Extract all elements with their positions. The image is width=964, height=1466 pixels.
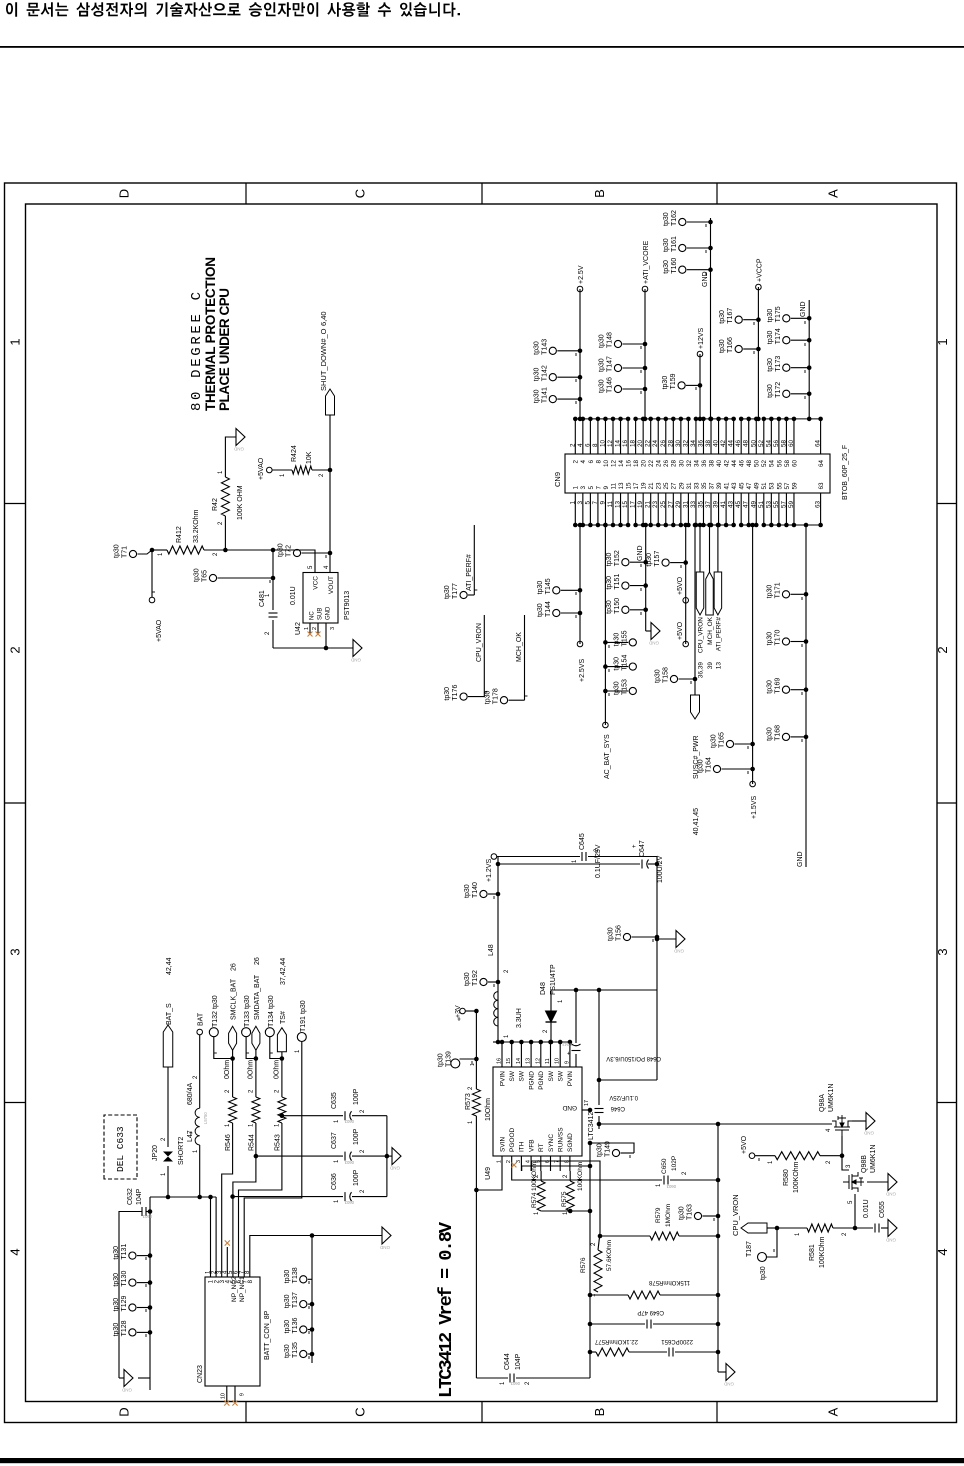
testpoint T150: [622, 606, 629, 613]
testpoint T65: [209, 574, 216, 581]
net +ATI_VCORE rail: [644, 289, 646, 419]
testpoint T142: [549, 374, 556, 381]
svg-text:D: D: [117, 189, 132, 198]
ground: [676, 931, 685, 948]
svg-text:A: A: [826, 1407, 841, 1416]
svg-text:T155: T155: [621, 630, 628, 646]
svg-text:43: 43: [728, 501, 735, 509]
svg-text:SVIN: SVIN: [499, 1137, 506, 1152]
drain rail: [599, 1123, 832, 1125]
svg-text:THERMAL PROTECTION: THERMAL PROTECTION: [203, 257, 218, 411]
svg-text:0.1UF/25V: 0.1UF/25V: [609, 1094, 638, 1100]
svg-text:D48: D48: [540, 982, 547, 995]
svg-text:GND: GND: [723, 1382, 734, 1387]
testpoint T143: [549, 347, 556, 354]
svg-text:tp30: tp30: [444, 585, 451, 599]
svg-text:CPU_VRON: CPU_VRON: [731, 1194, 740, 1236]
capacitor C481: [272, 550, 274, 610]
svg-text:T176: T176: [452, 685, 459, 701]
svg-text:SHUT_DOWN#_O: SHUT_DOWN#_O: [319, 328, 328, 391]
testpoint T173: [783, 364, 790, 371]
svg-text:6: 6: [584, 443, 591, 447]
svg-text:C648 PO/150U/6.3V: C648 PO/150U/6.3V: [606, 1055, 661, 1061]
svg-text:29: 29: [675, 501, 682, 509]
svg-text:0603: 0603: [344, 1160, 354, 1165]
svg-text:50: 50: [750, 439, 757, 447]
svg-text:9: 9: [240, 1393, 246, 1396]
testpoint T136: [300, 1326, 307, 1333]
svg-text:58: 58: [784, 460, 791, 468]
svg-text:31: 31: [686, 482, 693, 490]
diamond SMCLK_BAT: [229, 1026, 237, 1050]
svg-text:tp30: tp30: [533, 389, 540, 403]
svg-text:26: 26: [660, 439, 667, 447]
svg-text:100P: 100P: [353, 1128, 360, 1145]
svg-text:33: 33: [693, 482, 700, 490]
svg-text:PVIN: PVIN: [499, 1071, 506, 1086]
svg-text:B: B: [592, 189, 607, 198]
svg-text:+5VAO: +5VAO: [156, 619, 163, 642]
svg-text:tp30: tp30: [719, 339, 726, 353]
net +2.5V rail: [579, 289, 581, 419]
svg-text:0Ohm: 0Ohm: [273, 1060, 280, 1079]
svg-text:1: 1: [768, 1160, 774, 1164]
testpoint T162: [679, 218, 686, 225]
svg-text:R424: R424: [291, 445, 298, 462]
svg-text:14: 14: [615, 439, 622, 447]
svg-text:CN9: CN9: [553, 472, 562, 487]
svg-text:39: 39: [707, 662, 714, 670]
testpoint T152: [622, 559, 629, 566]
svg-text:SW: SW: [509, 1070, 516, 1081]
svg-text:R543: R543: [274, 1134, 281, 1151]
svg-text:+5VO: +5VO: [741, 1135, 748, 1154]
svg-text:24: 24: [656, 460, 663, 468]
svg-text:PGND: PGND: [528, 1071, 535, 1090]
svg-text:10: 10: [555, 1058, 561, 1064]
svg-text:L5750: L5750: [203, 1112, 208, 1124]
svg-text:VFB: VFB: [528, 1139, 535, 1152]
IC U42 PST9013: [303, 573, 338, 624]
svg-text:3: 3: [8, 948, 23, 955]
svg-text:16: 16: [497, 1058, 503, 1064]
wire R42 to gnd: [225, 437, 236, 477]
svg-text:10Ohm: 10Ohm: [485, 1098, 492, 1121]
svg-text:T187: T187: [746, 1241, 753, 1257]
svg-text:39: 39: [716, 482, 723, 490]
testpoint T171: [782, 591, 789, 598]
svg-text:2: 2: [8, 646, 23, 653]
svg-text:1: 1: [161, 1172, 167, 1176]
+1.2VS output rail: [497, 857, 499, 1043]
testpoint T132: [209, 1028, 218, 1037]
svg-text:10: 10: [599, 439, 606, 447]
svg-text:T135: T135: [292, 1342, 299, 1358]
svg-text:tp30: tp30: [613, 681, 620, 695]
svg-text:T128: T128: [121, 1320, 128, 1336]
transistor Q98A UM6K1N: [832, 1115, 852, 1136]
svg-text:0603: 0603: [666, 1184, 676, 1189]
svg-text:T150: T150: [614, 598, 621, 614]
svg-text:T151: T151: [614, 574, 621, 590]
svg-text:T152: T152: [614, 550, 621, 566]
svg-text:T175: T175: [775, 306, 782, 322]
svg-text:T65: T65: [202, 570, 209, 582]
svg-text:1: 1: [572, 859, 578, 863]
svg-text:PVIN: PVIN: [567, 1071, 574, 1086]
svg-text:T159: T159: [670, 373, 677, 389]
svg-text:9: 9: [564, 1061, 570, 1064]
svg-text:25: 25: [663, 482, 670, 490]
svg-text:tp30: tp30: [606, 576, 613, 590]
svg-text:100KOhm: 100KOhm: [819, 1236, 826, 1268]
testpoint T135: [300, 1350, 307, 1357]
svg-text:43: 43: [731, 482, 738, 490]
svg-text:NP_NC2: NP_NC2: [231, 1276, 238, 1302]
testpoint T169: [782, 686, 789, 693]
svg-text:T153: T153: [621, 679, 628, 695]
svg-text:2200PC651: 2200PC651: [661, 1338, 693, 1344]
testpoint T172: [783, 390, 790, 397]
svg-text:7: 7: [595, 486, 602, 490]
svg-text:U42: U42: [295, 622, 302, 635]
svg-text:1MOhm: 1MOhm: [665, 1204, 672, 1227]
gate wire Q98A: [841, 1136, 843, 1156]
svg-text:PST9013: PST9013: [344, 591, 351, 620]
svg-text:33: 33: [690, 501, 697, 509]
net +1.5VS rail: [752, 525, 754, 784]
svg-text:13: 13: [618, 482, 625, 490]
svg-text:15: 15: [506, 1058, 512, 1064]
svg-text:15: 15: [622, 501, 629, 509]
svg-text:2: 2: [360, 1109, 366, 1113]
svg-text:tp30: tp30: [608, 927, 615, 941]
svg-text:tp30: tp30: [464, 884, 471, 898]
testpoint T145: [553, 587, 560, 594]
svg-text:tp30: tp30: [599, 358, 606, 372]
svg-text:27: 27: [671, 482, 678, 490]
svg-text:32: 32: [682, 439, 689, 447]
svg-text:T156: T156: [616, 925, 623, 941]
capacitor C646: [598, 990, 600, 1105]
svg-text:SW: SW: [548, 1070, 555, 1081]
svg-text:GND: GND: [885, 1238, 896, 1243]
testpoint T137: [300, 1301, 307, 1308]
svg-text:35: 35: [697, 501, 704, 509]
svg-text:57: 57: [780, 501, 787, 509]
ground (Q98A): [852, 1120, 866, 1122]
gnd rail (buck): [656, 857, 658, 1081]
svg-text:tp30: tp30: [760, 1266, 767, 1280]
ground: [392, 1148, 401, 1165]
comp rung R578: [590, 1294, 628, 1296]
VFB wire: [531, 1161, 600, 1233]
testpoint T146: [614, 385, 621, 392]
svg-text:1: 1: [218, 470, 224, 474]
testpoint T144: [553, 609, 560, 616]
svg-text:D: D: [117, 1407, 132, 1416]
svg-text:C632: C632: [127, 1188, 134, 1205]
svg-text:T343: T343: [562, 1042, 572, 1047]
svg-text:C: C: [353, 189, 368, 198]
svg-text:41: 41: [720, 501, 727, 509]
svg-text:C646: C646: [610, 1105, 625, 1111]
svg-text:20: 20: [637, 439, 644, 447]
svg-text:1: 1: [656, 1183, 662, 1187]
testpoint T174: [783, 337, 790, 344]
svg-text:2: 2: [504, 969, 510, 973]
tp GND rail: [311, 1236, 313, 1364]
svg-text:16: 16: [625, 460, 632, 468]
resistor R575: [569, 1171, 571, 1181]
comp rung R577 C651: [590, 1351, 596, 1353]
svg-text:tp30: tp30: [212, 995, 219, 1009]
diode D48 FS1U4TP: [550, 1022, 552, 1042]
testpoint T131: [129, 1252, 136, 1259]
CN23 pin3 wire: [222, 1123, 233, 1277]
resistor R574: [540, 1171, 542, 1181]
svg-text:SUB: SUB: [318, 608, 324, 620]
svg-text:T142: T142: [541, 365, 548, 381]
svg-text:2: 2: [569, 443, 576, 447]
svg-text:+2.5V: +2.5V: [578, 265, 585, 284]
svg-text:+5VO: +5VO: [677, 621, 684, 640]
ground: [124, 1370, 133, 1387]
svg-text:T158: T158: [663, 667, 670, 683]
svg-text:SYNC: SYNC: [548, 1134, 555, 1152]
svg-text:42: 42: [724, 460, 731, 468]
svg-text:tp30: tp30: [719, 310, 726, 324]
resistor R42: [224, 516, 226, 550]
svg-text:tp30: tp30: [278, 543, 285, 557]
gnd rail U42: [273, 647, 353, 649]
svg-text:T139: T139: [446, 1051, 453, 1067]
svg-text:46: 46: [735, 439, 742, 447]
capacitor C655: [855, 1227, 873, 1229]
svg-text:2: 2: [591, 1242, 597, 1246]
svg-text:8: 8: [595, 460, 602, 464]
svg-text:2: 2: [218, 521, 224, 525]
svg-text:0603: 0603: [510, 1381, 520, 1386]
svg-text:tp30: tp30: [767, 680, 774, 694]
svg-text:CPU_VRON: CPU_VRON: [698, 617, 705, 653]
svg-text:49: 49: [750, 501, 757, 509]
svg-text:T133: T133: [244, 1011, 251, 1027]
testpoint T175: [783, 315, 790, 322]
svg-text:1: 1: [304, 627, 310, 630]
svg-text:tp30: tp30: [444, 687, 451, 701]
svg-text:T166: T166: [727, 337, 734, 353]
svg-text:3: 3: [580, 486, 587, 490]
svg-text:4: 4: [826, 1128, 832, 1132]
net CPU_VRON stub: [483, 615, 485, 697]
svg-text:33.2KOhm: 33.2KOhm: [193, 509, 200, 543]
railA: [589, 1143, 591, 1378]
svg-text:13: 13: [716, 662, 723, 670]
svg-text:tp30: tp30: [300, 1000, 307, 1014]
svg-text:63: 63: [815, 501, 822, 509]
net +3V: [460, 1008, 466, 1014]
svg-text:38: 38: [705, 439, 712, 447]
net SUSC#_PWR: [694, 525, 696, 696]
svg-text:55: 55: [776, 482, 783, 490]
svg-text:+VCCP: +VCCP: [756, 258, 763, 282]
railB: [717, 1124, 719, 1372]
testpoint T177: [460, 591, 467, 598]
svg-text:C650: C650: [661, 1158, 668, 1174]
svg-text:T165: T165: [719, 732, 726, 748]
svg-text:10: 10: [221, 1393, 227, 1399]
svg-text:+ATI_VCORE: +ATI_VCORE: [643, 240, 650, 284]
svg-text:37,42,44: 37,42,44: [280, 958, 287, 985]
svg-text:24: 24: [652, 439, 659, 447]
ground: [353, 640, 362, 657]
svg-text:10K: 10K: [306, 451, 313, 464]
svg-text:2: 2: [826, 1160, 832, 1164]
testpoint T138: [300, 1276, 307, 1283]
svg-text:Q98B: Q98B: [861, 1155, 868, 1173]
svg-text:tp30: tp30: [767, 384, 774, 398]
svg-text:100P: 100P: [353, 1088, 360, 1105]
svg-text:9: 9: [603, 486, 610, 490]
testpoint T151: [622, 582, 629, 589]
svg-text:NC: NC: [310, 611, 316, 620]
+5VAO node (R424): [267, 467, 273, 473]
vertical out drop: [551, 989, 657, 991]
svg-text:2: 2: [265, 631, 271, 635]
svg-text:29: 29: [678, 482, 685, 490]
svg-text:L47: L47: [187, 1130, 194, 1142]
testpoint T160: [679, 266, 686, 273]
svg-text:28: 28: [667, 439, 674, 447]
svg-text:R42: R42: [212, 498, 219, 511]
net GND rail (odd): [645, 525, 647, 631]
svg-text:R574: R574: [531, 1192, 538, 1208]
svg-text:0603: 0603: [344, 1200, 354, 1205]
testpoint T164: [713, 765, 720, 772]
svg-text:36: 36: [701, 460, 708, 468]
svg-text:GND: GND: [121, 1388, 132, 1393]
svg-text:T177: T177: [452, 583, 459, 599]
svg-text:T71: T71: [122, 546, 129, 558]
wire +3V rail to C644: [475, 1190, 477, 1378]
svg-text:22: 22: [648, 460, 655, 468]
net AC_BAT_SYS rail: [604, 525, 606, 725]
svg-text:T148: T148: [607, 332, 614, 348]
IC U49 LTC3412: [493, 1067, 582, 1156]
net MCH_OK stub: [524, 615, 526, 700]
svg-text:tp30: tp30: [599, 379, 606, 393]
svg-text:tp30: tp30: [284, 1344, 291, 1358]
svg-text:PLACE UNDER CPU: PLACE UNDER CPU: [217, 288, 232, 411]
ground (buck): [657, 938, 676, 940]
testpoint T128: [129, 1329, 136, 1336]
svg-text:100KOhm: 100KOhm: [793, 1161, 800, 1193]
svg-text:18: 18: [630, 439, 637, 447]
svg-text:1: 1: [225, 1123, 231, 1127]
resistor R546: [229, 1097, 237, 1123]
svg-text:11: 11: [610, 482, 617, 489]
svg-text:64: 64: [818, 460, 825, 468]
resistor R579: [600, 1235, 650, 1237]
svg-text:7: 7: [592, 501, 599, 505]
ground: [651, 623, 660, 640]
svg-text:8: 8: [248, 1279, 254, 1283]
svg-text:tp30: tp30: [533, 367, 540, 381]
SHUT_DOWN#_O arrow: [326, 389, 335, 415]
ground: [236, 429, 245, 446]
svg-text:40: 40: [713, 439, 720, 447]
svg-text:5: 5: [588, 486, 595, 490]
svg-text:20: 20: [641, 460, 648, 468]
svg-text:115KOhmR578: 115KOhmR578: [648, 1279, 690, 1285]
ground: [888, 1174, 897, 1191]
svg-text:T146: T146: [607, 377, 614, 393]
svg-text:C647: C647: [639, 840, 646, 857]
jumper JP20 SHORT2: [167, 1166, 169, 1197]
svg-text:CN23: CN23: [197, 1365, 204, 1383]
svg-text:40: 40: [716, 460, 723, 468]
svg-text:1: 1: [295, 1049, 301, 1053]
svg-text:tp30: tp30: [464, 972, 471, 986]
svg-text:2: 2: [225, 1089, 231, 1093]
svg-text:56: 56: [773, 439, 780, 447]
svg-text:21: 21: [645, 501, 652, 509]
svg-text:31: 31: [682, 501, 689, 509]
svg-text:1: 1: [497, 1160, 503, 1163]
svg-text:36: 36: [697, 439, 704, 447]
testpoint T148: [614, 340, 621, 347]
svg-text:T178: T178: [493, 688, 500, 704]
testpoint T130: [129, 1279, 136, 1286]
svg-text:46: 46: [739, 460, 746, 468]
svg-text:2: 2: [682, 1171, 688, 1175]
CN23 pin6 wire: [239, 1123, 282, 1277]
junction J3: [271, 548, 276, 553]
wire R412 to J2: [204, 549, 225, 551]
svg-text:A: A: [826, 189, 841, 198]
svg-text:C644: C644: [504, 1353, 511, 1370]
svg-text:+: +: [632, 844, 638, 848]
testpoint T129: [129, 1304, 136, 1311]
svg-text:59: 59: [788, 501, 795, 509]
svg-text:tp30: tp30: [679, 1206, 686, 1220]
resistor R581: [777, 1227, 807, 1229]
svg-text:55: 55: [773, 501, 780, 509]
svg-text:2: 2: [468, 1086, 474, 1090]
arrow TS#: [277, 1028, 286, 1052]
svg-text:36,39: 36,39: [698, 662, 705, 679]
svg-text:30: 30: [675, 439, 682, 447]
svg-text:tp30: tp30: [663, 260, 670, 274]
BAT_S output arrow: [163, 1025, 173, 1067]
svg-text:6,40: 6,40: [319, 311, 328, 326]
svg-text:T163: T163: [687, 1204, 694, 1220]
svg-text:tp30: tp30: [599, 334, 606, 348]
svg-text:C: C: [353, 1407, 368, 1416]
testpoint T156: [623, 933, 630, 940]
net +VCCP rail: [757, 287, 759, 419]
svg-text:3: 3: [577, 501, 584, 505]
CN23 pin2 wire: [215, 1197, 217, 1277]
svg-text:T72: T72: [286, 545, 293, 557]
testpoint T192: [480, 978, 487, 985]
svg-text:18: 18: [633, 460, 640, 468]
svg-text:37: 37: [708, 482, 715, 490]
svg-text:2: 2: [543, 1029, 549, 1033]
svg-text:47: 47: [743, 501, 750, 509]
svg-text:53: 53: [769, 482, 776, 490]
